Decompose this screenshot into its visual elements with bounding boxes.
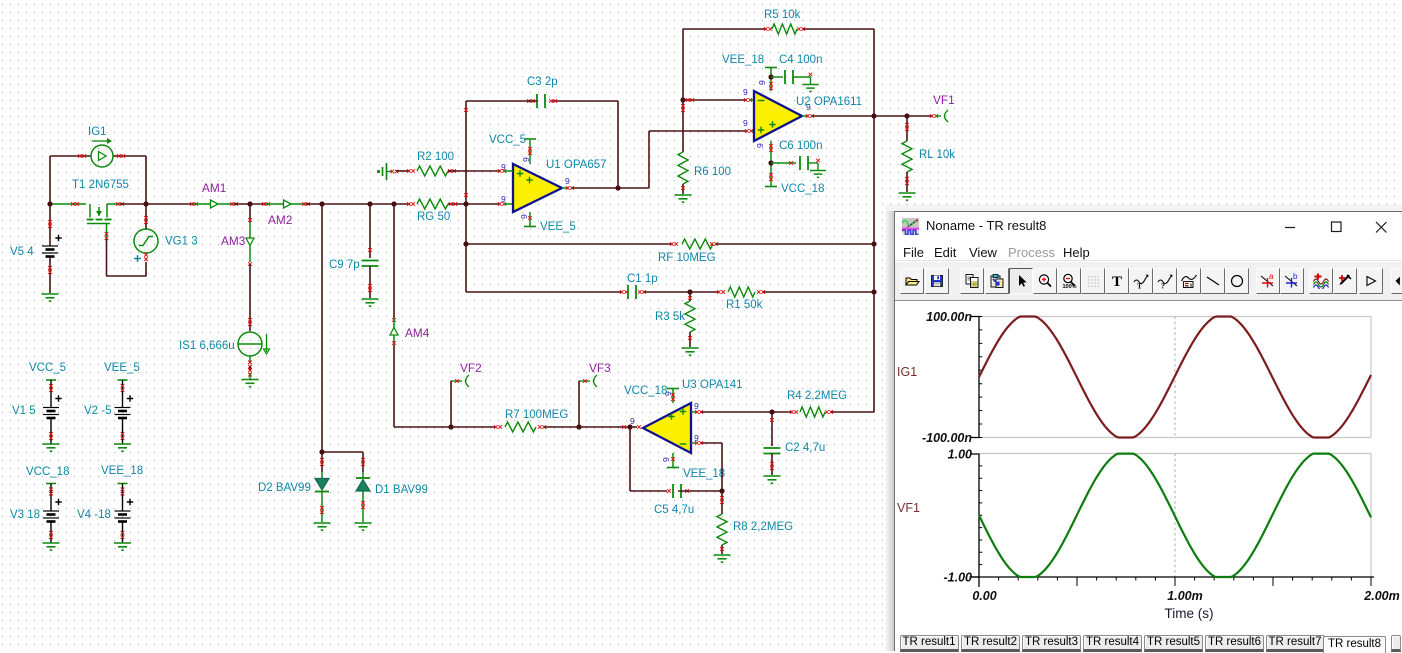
svg-text:IG1: IG1 bbox=[88, 126, 107, 138]
svg-text:R5 10k: R5 10k bbox=[764, 9, 801, 21]
svg-text:V3 18: V3 18 bbox=[10, 509, 40, 521]
svg-text:V5 4: V5 4 bbox=[10, 246, 34, 258]
svg-text:VF1: VF1 bbox=[933, 93, 955, 107]
svg-text:VCC_18: VCC_18 bbox=[26, 466, 69, 478]
svg-text:9: 9 bbox=[661, 457, 671, 462]
svg-text:VEE_5: VEE_5 bbox=[540, 221, 576, 233]
svg-text:9: 9 bbox=[519, 214, 529, 219]
svg-text:AM3: AM3 bbox=[221, 234, 246, 248]
svg-text:9: 9 bbox=[694, 401, 699, 411]
svg-text:U2 OPA1611: U2 OPA1611 bbox=[796, 96, 862, 108]
svg-text:V1 5: V1 5 bbox=[12, 405, 36, 417]
svg-text:VCC_5: VCC_5 bbox=[489, 134, 526, 146]
svg-text:RL 10k: RL 10k bbox=[919, 149, 955, 161]
svg-text:0.00: 0.00 bbox=[972, 589, 996, 603]
svg-text:-100.00n: -100.00n bbox=[922, 431, 972, 445]
svg-text:VF3: VF3 bbox=[589, 361, 611, 375]
svg-text:IS1 6,666u: IS1 6,666u bbox=[179, 340, 235, 352]
svg-text:RF 10MEG: RF 10MEG bbox=[658, 252, 716, 264]
svg-text:VEE_18: VEE_18 bbox=[683, 468, 725, 480]
svg-text:V2 -5: V2 -5 bbox=[84, 405, 112, 417]
svg-text:9: 9 bbox=[501, 194, 506, 204]
svg-text:AM4: AM4 bbox=[405, 326, 430, 340]
svg-text:U3 OPA141: U3 OPA141 bbox=[682, 379, 743, 391]
svg-text:VCC_18: VCC_18 bbox=[781, 183, 824, 195]
svg-text:RG 50: RG 50 bbox=[417, 211, 450, 223]
svg-text:2.00m: 2.00m bbox=[1363, 589, 1399, 603]
svg-text:VEE_18: VEE_18 bbox=[101, 465, 143, 477]
svg-text:C1 1p: C1 1p bbox=[627, 273, 658, 285]
svg-text:VEE_18: VEE_18 bbox=[722, 54, 764, 66]
svg-text:9: 9 bbox=[630, 416, 635, 426]
svg-text:R2 100: R2 100 bbox=[417, 151, 454, 163]
svg-text:C4 100n: C4 100n bbox=[779, 54, 822, 66]
svg-text:9: 9 bbox=[743, 118, 748, 128]
svg-text:9: 9 bbox=[757, 80, 767, 85]
svg-text:C5 4,7u: C5 4,7u bbox=[654, 504, 694, 516]
svg-text:V4 -18: V4 -18 bbox=[77, 509, 111, 521]
svg-text:9: 9 bbox=[565, 176, 570, 186]
svg-text:R6 100: R6 100 bbox=[694, 166, 731, 178]
svg-text:R4 2,2MEG: R4 2,2MEG bbox=[787, 390, 847, 402]
svg-text:VG1 3: VG1 3 bbox=[165, 236, 198, 248]
svg-text:C9 7p: C9 7p bbox=[329, 259, 360, 271]
svg-text:AM2: AM2 bbox=[268, 213, 292, 227]
svg-text:T1 2N6755: T1 2N6755 bbox=[72, 179, 129, 191]
svg-text:9: 9 bbox=[755, 143, 765, 148]
svg-text:R7 100MEG: R7 100MEG bbox=[505, 409, 568, 421]
svg-text:C6 100n: C6 100n bbox=[779, 140, 822, 152]
svg-text:Time (s): Time (s) bbox=[1165, 606, 1214, 621]
svg-text:100.00n: 100.00n bbox=[926, 310, 972, 324]
svg-text:VEE_5: VEE_5 bbox=[104, 362, 140, 374]
svg-text:D1 BAV99: D1 BAV99 bbox=[375, 484, 428, 496]
svg-text:R8 2,2MEG: R8 2,2MEG bbox=[733, 521, 793, 533]
svg-text:VF1: VF1 bbox=[897, 501, 920, 515]
svg-text:-1.00: -1.00 bbox=[944, 571, 973, 585]
svg-text:9: 9 bbox=[743, 87, 748, 97]
svg-text:C3 2p: C3 2p bbox=[527, 76, 558, 88]
svg-text:C2 4,7u: C2 4,7u bbox=[785, 442, 825, 454]
svg-text:R1 50k: R1 50k bbox=[726, 299, 763, 311]
svg-text:U1 OPA657: U1 OPA657 bbox=[546, 159, 607, 171]
svg-text:VCC_18: VCC_18 bbox=[624, 385, 667, 397]
svg-text:R3 5k: R3 5k bbox=[655, 311, 685, 323]
svg-text:1.00m: 1.00m bbox=[1167, 589, 1202, 603]
svg-text:VF2: VF2 bbox=[460, 361, 482, 375]
svg-text:D2 BAV99: D2 BAV99 bbox=[258, 482, 311, 494]
svg-text:IG1: IG1 bbox=[897, 365, 917, 379]
svg-text:1.00: 1.00 bbox=[948, 448, 972, 462]
svg-text:AM1: AM1 bbox=[202, 181, 226, 195]
svg-text:VCC_5: VCC_5 bbox=[29, 362, 66, 374]
